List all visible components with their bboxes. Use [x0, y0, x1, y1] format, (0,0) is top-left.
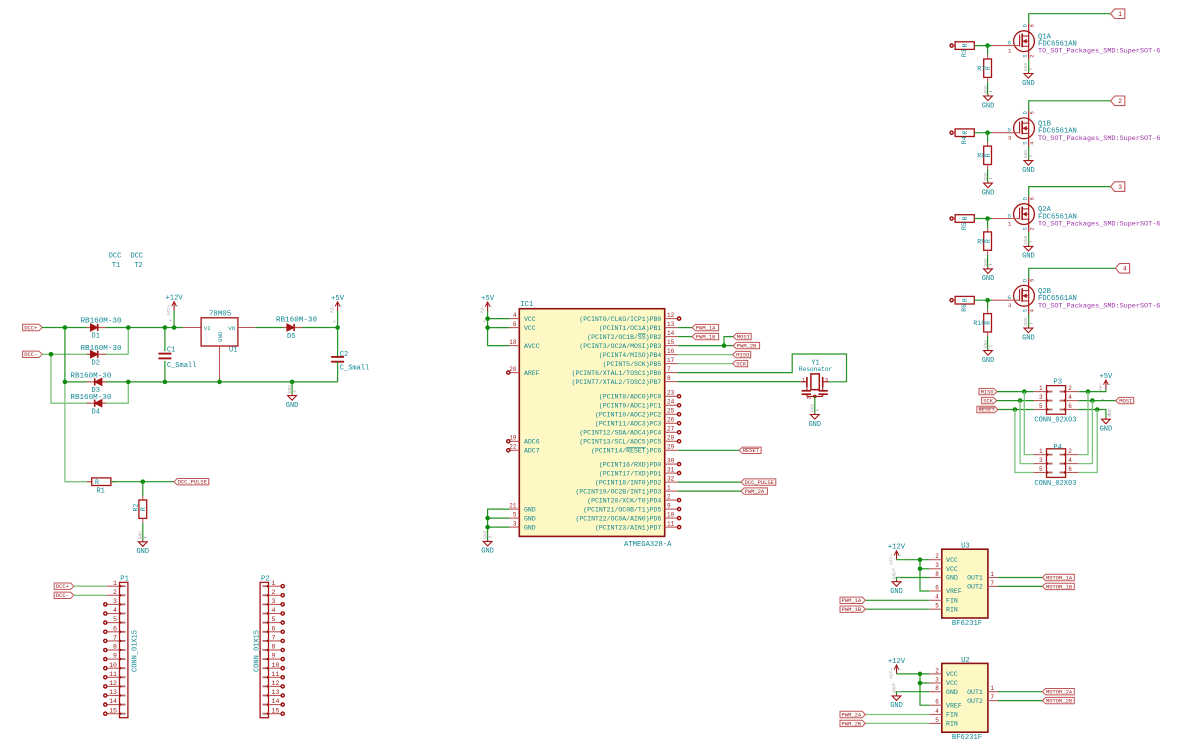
svg-text:GND: GND [1022, 334, 1035, 342]
wire R2 to ground [142, 523, 144, 541]
svg-text:CONN_01X15: CONN_01X15 [253, 630, 261, 672]
svg-text:RIN: RIN [946, 721, 958, 728]
pin 1 P1 [106, 585, 119, 587]
svg-text:(PCINT2/OC1B/SS)PB2: (PCINT2/OC1B/SS)PB2 [587, 334, 661, 341]
pin 2 P3 [1066, 391, 1079, 393]
svg-text:1: 1 [990, 685, 994, 692]
wire +12V to VCC U2 [897, 673, 930, 675]
svg-text:1: 1 [667, 485, 671, 492]
svg-text:OUT2: OUT2 [967, 698, 983, 705]
svg-text:8: 8 [272, 644, 276, 651]
svg-text:GND: GND [138, 531, 144, 540]
wire D1-D2 cathode vertical [127, 328, 129, 355]
svg-text:(PCINT9/ADC1)PC1: (PCINT9/ADC1)PC1 [599, 403, 662, 410]
svg-text:2: 2 [1068, 448, 1072, 455]
wire PD2 to DCC_PULSE [678, 481, 741, 483]
IC U3 BF6231F body [942, 549, 988, 618]
resistor R5 [950, 217, 953, 220]
svg-text:SCK: SCK [736, 361, 747, 368]
svg-text:(PCINT16/RXD)PD0: (PCINT16/RXD)PD0 [599, 461, 662, 468]
resonator internal caps [806, 387, 808, 390]
wire FIN U3 [865, 599, 929, 601]
ground symbol U3 [896, 580, 898, 582]
svg-text:TO_SOT_Packages_SMD:SuperSOT-6: TO_SOT_Packages_SMD:SuperSOT-6 [1038, 48, 1160, 56]
svg-text:TO_SOT_Packages_SMD:SuperSOT-6: TO_SOT_Packages_SMD:SuperSOT-6 [1038, 135, 1160, 143]
pin 7 OUT2 U3 [988, 585, 998, 587]
junction P3 pin6 [1095, 407, 1100, 412]
global label DCC+ at P1 [54, 583, 74, 589]
svg-text:(PCINT21/OC0B/T1)PD5: (PCINT21/OC0B/T1)PD5 [583, 506, 661, 513]
power +12V at U3 [896, 551, 898, 560]
svg-text:3: 3 [935, 562, 939, 569]
pin 2 VCC U3 [929, 559, 941, 561]
pin 2 VCC U2 [929, 673, 941, 675]
wire DCC- to P1 pin2 [74, 594, 107, 596]
svg-text:31: 31 [667, 467, 675, 474]
svg-text:(PCINT7/XTAL2/TOSC2)PB7: (PCINT7/XTAL2/TOSC2)PB7 [572, 379, 662, 386]
junction VCC pin6 [485, 325, 490, 330]
ground symbol Q2A [1027, 245, 1029, 247]
svg-text:D2: D2 [92, 359, 100, 367]
svg-text:GND: GND [891, 571, 897, 580]
global label MOTOR_1B [1042, 583, 1074, 589]
svg-text:2: 2 [1118, 98, 1122, 105]
pin 3 Y1 [823, 381, 829, 383]
svg-text:13: 13 [109, 689, 117, 696]
connector P2 [260, 582, 268, 717]
resistor R7 [987, 46, 989, 56]
svg-text:7: 7 [272, 635, 276, 642]
svg-text:6: 6 [272, 625, 276, 632]
pin 13 P1 [106, 695, 119, 697]
ground symbol U2 [896, 694, 898, 696]
junction R1/R2 [141, 479, 146, 484]
svg-text:6: 6 [1029, 197, 1035, 200]
pin 1 P4 [1034, 454, 1047, 456]
wire drain Q1A to flag [1029, 14, 1111, 24]
pin 6 P2 [269, 631, 282, 633]
pin 11 P2 [269, 676, 282, 678]
svg-text:VI: VI [204, 325, 211, 332]
svg-text:DCC_PULSE: DCC_PULSE [745, 479, 774, 486]
svg-text:PWM_1B: PWM_1B [696, 334, 716, 341]
svg-text:1: 1 [990, 571, 994, 578]
svg-text:CONN_02X03: CONN_02X03 [1034, 417, 1076, 425]
wire drain Q2A to flag [1029, 187, 1111, 197]
pin 2 (PCINT20/XCK/T0)PD4 [665, 499, 678, 501]
ground symbol R2 [142, 540, 144, 542]
pin 6 VREF U2 [929, 704, 941, 706]
wire R7 to gnd [987, 82, 989, 95]
pin 12 (PCINT0/CLKO/ICP1)PB0 [665, 318, 678, 320]
svg-text:78M05: 78M05 [209, 310, 231, 318]
svg-text:MISO: MISO [736, 352, 749, 359]
svg-text:4: 4 [1068, 394, 1072, 401]
power +5V at IC1 [487, 302, 489, 311]
no-connect pin 22 ADC7 [507, 449, 510, 452]
pin 30 (PCINT16/RXD)PD0 [665, 463, 678, 465]
junction MISO [1022, 389, 1027, 394]
svg-text:5: 5 [272, 616, 276, 623]
pin 6 VCC [510, 327, 520, 329]
svg-text:4: 4 [272, 607, 276, 614]
svg-text:R: R [985, 153, 992, 157]
svg-text:13: 13 [272, 689, 280, 696]
junction P3 pin4 [1090, 398, 1095, 403]
wire OUT1 U2 [998, 691, 1042, 693]
svg-text:4: 4 [935, 594, 939, 601]
svg-text:3: 3 [513, 521, 517, 528]
junction VCC pin4 [485, 316, 490, 321]
svg-text:VCC: VCC [524, 325, 536, 332]
svg-text:11: 11 [667, 521, 675, 528]
diode D4 [87, 402, 106, 404]
svg-text:R6: R6 [961, 304, 968, 312]
svg-text:T1: T1 [112, 262, 120, 270]
wire R10 to gnd [987, 336, 989, 349]
junction DCC+ / D1 [63, 325, 68, 330]
svg-text:(PCINT4/MISO)PB4: (PCINT4/MISO)PB4 [599, 352, 662, 359]
ground symbol Y1 [814, 413, 816, 415]
wire R6 to gate Q2B [974, 299, 992, 301]
wire R1 to DCC_PULSE [111, 481, 174, 483]
hierarchical flag 1 [1111, 9, 1125, 19]
svg-text:D5: D5 [287, 333, 295, 341]
pin 1 Y1 [801, 381, 807, 383]
pin 2 P4 [1066, 454, 1079, 456]
junction C1 bottom rail [163, 380, 168, 385]
wire MISO to P4 pin1 [1024, 392, 1033, 455]
svg-text:Resonator: Resonator [799, 366, 833, 373]
junction SCK [1018, 398, 1023, 403]
svg-text:8: 8 [935, 571, 939, 578]
pin 3 P1 [106, 603, 119, 605]
svg-text:DCC+: DCC+ [56, 583, 69, 590]
junction DCC- [49, 352, 54, 357]
junction VCC2 U2 [918, 672, 923, 677]
global label RESET [739, 447, 761, 453]
svg-text:R5: R5 [961, 222, 968, 230]
pin 1 OUT1 U3 [988, 577, 998, 579]
svg-text:9: 9 [272, 653, 276, 660]
svg-text:1: 1 [1039, 448, 1043, 455]
svg-text:29: 29 [667, 444, 675, 451]
pin 9 P2 [269, 658, 282, 660]
svg-text:4: 4 [1029, 142, 1035, 145]
pin 5 RIN U3 [929, 608, 941, 610]
pin 15 P2 [269, 713, 282, 715]
svg-text:+12V: +12V [888, 668, 894, 679]
svg-text:ATMEGA328-A: ATMEGA328-A [624, 541, 672, 549]
no-connect pin 19 ADC6 [507, 440, 510, 443]
svg-text:12: 12 [272, 680, 280, 687]
svg-text:8: 8 [113, 644, 117, 651]
wire vertical DCC- to D4 [51, 354, 91, 403]
svg-text:RB160M-30: RB160M-30 [70, 373, 111, 381]
svg-text:RESET: RESET [743, 447, 760, 454]
hierarchical flag 4 [1115, 264, 1129, 274]
svg-text:3: 3 [1008, 302, 1011, 309]
wire +5V to VCC pins [488, 311, 510, 346]
svg-text:R: R [962, 44, 969, 48]
svg-text:AREF: AREF [524, 370, 540, 377]
pin 20 AREF [510, 372, 520, 374]
svg-text:BF6231F: BF6231F [952, 620, 982, 628]
svg-text:D1: D1 [92, 333, 100, 341]
wire R3 to gate Q1A [974, 45, 992, 47]
pin 4 P4 [1066, 463, 1079, 465]
pin 25 (PCINT10/ADC2)PC2 [665, 413, 678, 415]
pin 3 GND [510, 526, 520, 528]
wire VO to D5 [255, 327, 337, 329]
svg-text:+12V: +12V [165, 295, 183, 303]
global label MOTOR_1A [1042, 574, 1074, 580]
wire PB4 to MISO [678, 354, 733, 356]
ground symbol R7 [987, 95, 989, 97]
svg-text:U1: U1 [229, 346, 237, 354]
svg-text:D: D [1022, 111, 1028, 114]
pin 4 FIN U3 [929, 599, 941, 601]
svg-text:10: 10 [109, 662, 117, 669]
svg-text:(PCINT8/ADC0)PC0: (PCINT8/ADC0)PC0 [599, 394, 662, 401]
hierarchical flag 3 [1111, 182, 1125, 192]
svg-text:MOSI: MOSI [737, 334, 750, 341]
svg-text:3: 3 [825, 376, 828, 383]
junction D4 rail [126, 380, 131, 385]
svg-text:GND: GND [983, 172, 989, 181]
pin 5 P4 [1034, 472, 1047, 474]
wire PB3 to PWM_2B and MOSI [678, 345, 733, 347]
pin 14 P1 [106, 704, 119, 706]
svg-text:MOTOR_1A: MOTOR_1A [1046, 574, 1073, 581]
svg-text:2: 2 [935, 553, 939, 560]
pin 6 P3 [1066, 409, 1079, 411]
svg-text:11: 11 [109, 671, 117, 678]
junction VCC3 U3 [918, 567, 923, 572]
svg-text:12: 12 [109, 680, 117, 687]
svg-text:GND: GND [982, 357, 995, 365]
svg-text:R1: R1 [96, 488, 104, 496]
pin 7 P2 [269, 640, 282, 642]
junction gnd symbol rail [290, 380, 295, 385]
svg-text:VCC: VCC [946, 557, 958, 564]
svg-text:2: 2 [1029, 227, 1035, 230]
svg-text:12: 12 [667, 312, 675, 319]
svg-text:2: 2 [272, 589, 276, 596]
pin 1 P2 [269, 585, 282, 587]
capacitor C1 [164, 328, 166, 352]
svg-text:6: 6 [1029, 24, 1035, 27]
wire R9 to gnd [987, 255, 989, 268]
wire source Q1A to gnd [1028, 59, 1030, 72]
svg-text:(PCINT10/ADC2)PC2: (PCINT10/ADC2)PC2 [595, 412, 661, 419]
svg-text:PWM_2B: PWM_2B [842, 720, 862, 727]
svg-text:GND: GND [982, 189, 995, 197]
svg-text:(PCINT13/SCL/ADC5)PC5: (PCINT13/SCL/ADC5)PC5 [579, 439, 661, 446]
ground symbol Q2B [1027, 327, 1029, 329]
svg-text:6: 6 [935, 699, 939, 706]
svg-text:VCC: VCC [946, 680, 958, 687]
pin 4 VCC [510, 318, 520, 320]
junction C1 top [163, 325, 168, 330]
wire GND to P4 pin6 [1079, 410, 1098, 473]
svg-text:(PCINT11/ADC3)PC3: (PCINT11/ADC3)PC3 [595, 421, 661, 428]
svg-text:11: 11 [272, 671, 280, 678]
svg-text:6: 6 [1068, 403, 1072, 410]
wire VI pin U1 [183, 327, 201, 329]
svg-text:D: D [1022, 197, 1028, 200]
wire SCK to P3 [997, 400, 1034, 402]
resistor R4 [950, 131, 953, 134]
svg-text:6: 6 [935, 584, 939, 591]
wire RIN U3 [865, 608, 929, 610]
diode D3 [87, 381, 106, 383]
global label DCC_PULSE (left) [174, 479, 209, 485]
svg-text:OUT2: OUT2 [967, 584, 983, 591]
svg-text:MOTOR_2B: MOTOR_2B [1046, 698, 1073, 705]
pin 9 (PCINT21/OC0B/T1)PD5 [665, 508, 678, 510]
svg-text:+12V: +12V [165, 305, 171, 316]
svg-text:5: 5 [935, 717, 939, 724]
svg-text:+12V: +12V [888, 554, 894, 565]
wire drain Q2B to flag [1029, 268, 1116, 278]
svg-text:10: 10 [272, 662, 280, 669]
transistor Q2A [1014, 204, 1035, 225]
svg-text:18: 18 [509, 339, 517, 346]
ground symbol power rail [291, 382, 293, 394]
svg-text:2: 2 [113, 589, 117, 596]
svg-text:TO_SOT_Packages_SMD:SuperSOT-6: TO_SOT_Packages_SMD:SuperSOT-6 [1038, 221, 1160, 229]
svg-text:(PCINT19/OC2B/INT1)PD3: (PCINT19/OC2B/INT1)PD3 [575, 488, 661, 495]
svg-text:+5V: +5V [1097, 383, 1103, 392]
svg-text:VCC: VCC [946, 671, 958, 678]
svg-text:U2: U2 [961, 657, 970, 665]
pin U1 VO [238, 327, 256, 329]
svg-text:GND: GND [286, 402, 299, 410]
svg-text:6: 6 [113, 625, 117, 632]
power +12V at U2 [896, 665, 898, 674]
svg-text:S: S [1022, 309, 1028, 312]
svg-text:2: 2 [667, 494, 671, 501]
svg-text:GND: GND [481, 548, 494, 556]
transistor Q1A [1014, 31, 1035, 52]
svg-text:GND: GND [983, 85, 989, 94]
IC U1 ATMEGA328-A body [519, 309, 664, 537]
svg-text:3: 3 [1039, 394, 1043, 401]
wire GND pins IC1 [488, 509, 510, 540]
junction D1 cathode [126, 325, 131, 330]
svg-text:23: 23 [667, 390, 675, 397]
junction gate Q1B [985, 130, 990, 135]
wire R4 to gate Q1B [974, 132, 992, 134]
pin 8 (PCINT7/XTAL2/TOSC2)PB7 [665, 381, 678, 383]
wire drain Q1B to flag [1029, 101, 1111, 111]
wire PB1 to PWM_1A [678, 327, 692, 329]
svg-text:5: 5 [1039, 403, 1043, 410]
global label DCC_PULSE at IC [741, 479, 776, 485]
svg-text:(PCINT6/XTAL1/TOSC1)PB6: (PCINT6/XTAL1/TOSC1)PB6 [572, 370, 662, 377]
svg-text:15: 15 [667, 339, 675, 346]
pin 10 P1 [106, 667, 119, 669]
svg-text:DCC-: DCC- [56, 592, 69, 599]
svg-text:GND: GND [890, 702, 903, 710]
svg-text:GND: GND [983, 340, 989, 349]
svg-text:5: 5 [113, 616, 117, 623]
global label MOTOR_2A [1042, 689, 1074, 695]
svg-text:FIN: FIN [946, 712, 958, 719]
svg-text:7: 7 [990, 694, 994, 701]
svg-text:(PCINT18/INT0)PD2: (PCINT18/INT0)PD2 [595, 479, 661, 486]
pin 7 P1 [106, 640, 119, 642]
pin 16 (PCINT4/MISO)PB4 [665, 354, 678, 356]
pin 3 VCC U2 [929, 682, 941, 684]
svg-text:(PCINT20/XCK/T0)PD4: (PCINT20/XCK/T0)PD4 [587, 497, 661, 504]
svg-text:D: D [1022, 24, 1028, 27]
svg-text:7: 7 [667, 366, 671, 373]
resistor R10 [987, 300, 989, 310]
resistor R1 [87, 481, 92, 483]
svg-text:ADC6: ADC6 [524, 439, 540, 446]
svg-text:(PCINT5/SCK)PB5: (PCINT5/SCK)PB5 [603, 361, 662, 368]
pin 26 (PCINT11/ADC3)PC3 [665, 422, 678, 424]
svg-text:GND: GND [1023, 317, 1029, 326]
wire P3 pin4 to MOSI [1079, 400, 1116, 402]
junction gate Q1A [985, 43, 990, 48]
svg-text:(PCINT23/AIN1)PD7: (PCINT23/AIN1)PD7 [595, 524, 661, 531]
svg-text:GND: GND [482, 530, 488, 539]
global label MOSI at P3 [1116, 397, 1134, 403]
svg-text:GND: GND [982, 102, 995, 110]
pin 12 P1 [106, 685, 119, 687]
pin 19 ADC6 [510, 440, 520, 442]
svg-text:(PCINT22/OC0A/AIN0)PD6: (PCINT22/OC0A/AIN0)PD6 [575, 515, 661, 522]
svg-text:S: S [1022, 142, 1028, 145]
svg-text:PWM_1A: PWM_1A [842, 597, 862, 604]
pin 11 (PCINT23/AIN1)PD7 [665, 526, 678, 528]
wire OUT1 U3 [998, 577, 1042, 579]
svg-text:5: 5 [1029, 279, 1035, 282]
svg-text:4: 4 [1029, 309, 1035, 312]
svg-text:RB160M-30: RB160M-30 [276, 317, 317, 325]
pin 6 P4 [1066, 472, 1079, 474]
svg-text:C_Small: C_Small [167, 362, 196, 370]
svg-text:RESET: RESET [979, 406, 996, 413]
wire source Q2B to gnd [1028, 314, 1030, 327]
svg-text:IC1: IC1 [520, 301, 533, 309]
svg-text:GND: GND [982, 275, 995, 283]
pin 27 (PCINT12/SDA/ADC4)PC4 [665, 431, 678, 433]
junction GND pin5 [485, 516, 490, 521]
junction U1 gnd rail [217, 380, 222, 385]
svg-text:DCC: DCC [131, 252, 143, 260]
wire +12V to VCC U3 [897, 559, 930, 561]
global label MOSI [733, 333, 751, 339]
svg-text:TO_SOT_Packages_SMD:SuperSOT-6: TO_SOT_Packages_SMD:SuperSOT-6 [1038, 302, 1160, 310]
global label PWM_1B [692, 333, 718, 339]
pin 6 VREF U3 [929, 590, 941, 592]
svg-text:DCC_PULSE: DCC_PULSE [178, 479, 207, 486]
svg-text:1: 1 [1039, 385, 1043, 392]
svg-text:26: 26 [667, 417, 675, 424]
svg-text:2: 2 [1068, 385, 1072, 392]
svg-text:+5V: +5V [329, 305, 335, 314]
svg-text:GND: GND [1107, 408, 1113, 417]
ground symbol R10 [987, 349, 989, 351]
global label DCC- at P1 [54, 592, 74, 598]
svg-text:GND: GND [890, 588, 903, 596]
pin 7 (PCINT6/XTAL1/TOSC1)PB6 [665, 372, 678, 374]
svg-text:GND: GND [524, 515, 536, 522]
